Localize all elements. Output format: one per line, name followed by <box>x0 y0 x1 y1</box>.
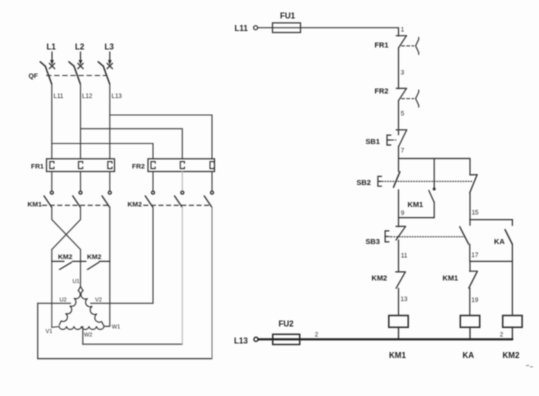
wire branch to KA column <box>470 219 512 221</box>
wire V1 lead down from aux row <box>51 261 53 327</box>
svg-text:U1: U1 <box>73 279 80 285</box>
aux contact linked to SB2 (branch, pin 15) <box>470 159 478 220</box>
contactor KM2 linkage (dashed) <box>144 204 212 206</box>
motor winding right side (U1-W1 coil) <box>81 287 104 326</box>
svg-text:L12: L12 <box>82 93 93 100</box>
wire FR2 pole2 to KM2 contact2 (light) <box>181 172 183 191</box>
contactor KM1 main contact 2 <box>73 191 82 207</box>
wire branch phase1 to FR2 pole1 <box>52 144 153 159</box>
wire FR2 pole3 to KM2 contact3 <box>211 172 213 191</box>
svg-text:FR1: FR1 <box>31 163 44 170</box>
svg-text:19: 19 <box>471 297 478 304</box>
breaker QF linkage (dashed) <box>47 75 107 77</box>
wire branch phase2 to FR2 pole2 <box>81 129 183 159</box>
thermal relay FR1 body <box>47 159 115 172</box>
FR2 heater element 2 <box>180 162 184 169</box>
thermal contact FR2 (NC) <box>396 88 418 107</box>
wire KM2 pole2 down leg (light) <box>181 207 183 344</box>
svg-text:2: 2 <box>315 331 319 338</box>
wire SB1 to node 7 <box>398 146 400 158</box>
svg-text:L13: L13 <box>112 93 123 100</box>
wire rail top <box>398 28 400 36</box>
svg-text:KM2: KM2 <box>58 254 73 261</box>
motor winding left side (U1-V1 coil) <box>59 287 80 325</box>
thermal relay FR2 body <box>148 159 215 172</box>
svg-text:KM1: KM1 <box>389 351 406 360</box>
svg-text:FR1: FR1 <box>375 41 389 50</box>
svg-text:FR2: FR2 <box>375 87 389 96</box>
pushbutton SB3 (NC) <box>385 226 406 242</box>
coil KM1 <box>389 316 408 328</box>
coil KA <box>460 316 479 328</box>
wire KM1 pole3 down to W1 <box>109 207 111 326</box>
svg-text:SB2: SB2 <box>357 178 371 187</box>
wire SB3 to KM2 aux <box>398 240 400 272</box>
pushbutton SB2 (NO start) <box>378 172 400 188</box>
svg-text:17: 17 <box>471 252 478 259</box>
svg-text:3: 3 <box>401 70 405 77</box>
svg-text:SB3: SB3 <box>366 237 380 246</box>
svg-text:KM2: KM2 <box>128 201 143 208</box>
svg-text:V1: V1 <box>46 329 53 335</box>
wire SB2 to node 9 region <box>398 190 400 227</box>
svg-text:SB1: SB1 <box>366 137 380 146</box>
breaker QF pole 1 blade <box>40 62 51 84</box>
svg-text:L2: L2 <box>75 43 85 52</box>
svg-text:KM2: KM2 <box>372 273 388 282</box>
wire left node down to KM2 aux row <box>51 250 53 262</box>
wire U2 tap to far-left drop <box>38 302 71 304</box>
svg-text:V2: V2 <box>95 298 102 304</box>
svg-text:QF: QF <box>29 73 38 80</box>
svg-text:KM1: KM1 <box>443 273 459 282</box>
svg-text:9: 9 <box>401 210 405 217</box>
aux contact KM2 interlock (NC) <box>396 272 406 288</box>
wire FR1 pole3 to KM1 contact3 <box>109 172 111 191</box>
thermal contact FR1 (NC) <box>396 36 418 55</box>
wire branch split at node 7 <box>399 158 471 160</box>
wire KM2 pole1 down leg <box>152 207 154 303</box>
relay contact KA (NO) <box>505 220 512 316</box>
wire V2 tap to KM2 pole1 <box>91 302 153 304</box>
contactor KM2 main contact 2 <box>175 191 184 207</box>
svg-text:L11: L11 <box>54 93 64 100</box>
svg-text:KM1: KM1 <box>408 200 424 209</box>
wire FR1 pole2 to KM1 contact2 <box>80 172 82 191</box>
svg-text:2: 2 <box>500 331 504 338</box>
pushbutton SB1 (NC) <box>387 130 407 147</box>
svg-text:L1: L1 <box>47 43 57 52</box>
wire KM2 pole3 down leg <box>211 207 213 359</box>
svg-text:13: 13 <box>401 296 408 303</box>
contactor KM1 linkage (dashed) <box>43 204 110 206</box>
aux contact KM1 self-hold branch <box>399 159 436 218</box>
svg-text:5: 5 <box>401 111 405 118</box>
svg-text:15: 15 <box>472 210 479 217</box>
breaker QF pole 2 blade <box>69 62 80 84</box>
svg-text:U2: U2 <box>60 298 67 304</box>
wire winding bottom-right vertex to W1 lead <box>104 325 110 327</box>
wire L2 arrow into QF pole 2 <box>78 52 83 69</box>
wire bottom run to KM2 pole3 <box>38 358 212 360</box>
FR2 heater element 3 <box>210 162 214 169</box>
wire KM2 aux to coil KM1 <box>398 288 400 315</box>
svg-text:W1: W1 <box>112 324 120 330</box>
FR2 heater element 1 <box>151 162 155 169</box>
wire branch phase3 to FR2 pole3 <box>110 115 212 159</box>
svg-text:1: 1 <box>401 27 405 34</box>
wire V1 corner into winding <box>52 326 59 329</box>
svg-text:11: 11 <box>401 253 408 260</box>
FR1 heater element 2 <box>79 162 83 169</box>
contactor KM2 main contact 1 <box>145 191 154 207</box>
svg-text:L3: L3 <box>105 43 115 52</box>
wire bottom rail L13 <box>258 338 512 340</box>
wire L3 arrow into QF pole 3 <box>107 52 112 69</box>
artifact dots <box>527 366 533 367</box>
wire rail to SB2 <box>398 159 400 172</box>
svg-text:KA: KA <box>463 351 475 360</box>
aux contact KM2-a (horizontal) <box>52 261 86 269</box>
aux contact KM1 (branch, pin 19) <box>469 261 478 315</box>
wire L11 feed <box>258 27 399 29</box>
aux contact KM2-b (horizontal) <box>88 261 110 269</box>
wire FR2 pole1 to KM2 contact1 <box>152 172 154 191</box>
svg-text:FU1: FU1 <box>280 12 296 21</box>
wire QF pole3 down to FR1 <box>109 84 111 159</box>
wire QF pole1 down to FR1 <box>51 84 53 159</box>
wire KM1 pole2 crossover to left <box>52 207 81 250</box>
breaker QF pole 3 blade <box>98 62 109 84</box>
wire FR1 to FR2 <box>398 48 400 89</box>
fuse FU1 body <box>273 23 301 33</box>
contactor KM1 main contact 3 <box>102 191 111 207</box>
contactor KM2 main contact 3 <box>204 191 213 207</box>
fuse FU2 body <box>273 334 300 344</box>
svg-text:L13: L13 <box>234 337 248 346</box>
FR1 heater element 3 <box>108 162 112 169</box>
wire junction 17 to KA column <box>470 260 512 262</box>
wire KM1 pole1 crossover to centre <box>52 207 81 250</box>
wire W2 run to KM2 pole2 <box>83 343 183 345</box>
wire FR1 pole1 to KM1 contact1 <box>51 172 53 191</box>
svg-text:KM2: KM2 <box>503 351 520 360</box>
FR1 heater element 1 <box>50 162 54 169</box>
svg-text:7: 7 <box>401 148 405 155</box>
wire FR2 to SB1 <box>398 100 400 134</box>
svg-text:FU2: FU2 <box>279 320 295 329</box>
svg-text:L11: L11 <box>235 24 249 33</box>
wire centre node down to U1 apex <box>80 250 82 287</box>
linkage SB3 (dotted) <box>397 236 465 238</box>
svg-text:KM1: KM1 <box>28 201 43 208</box>
svg-text:FR2: FR2 <box>132 163 145 170</box>
wire QF pole2 down to FR1 <box>80 84 82 159</box>
svg-text:KM2: KM2 <box>87 254 102 261</box>
motor winding bottom side (V1-W1 coil) <box>59 326 104 329</box>
wire L1 arrow into QF pole 1 <box>49 52 54 69</box>
svg-text:W2: W2 <box>84 333 92 339</box>
linkage SB2 (dotted) <box>382 180 472 182</box>
contactor KM1 main contact 1 <box>44 191 53 207</box>
svg-text:KA: KA <box>494 237 505 246</box>
wire far-left drop down <box>37 303 39 358</box>
wire W2 tap down <box>82 327 84 345</box>
aux contact linked to SB3 (branch, pins 15-17) <box>460 220 470 262</box>
coil KM2 <box>503 316 522 328</box>
